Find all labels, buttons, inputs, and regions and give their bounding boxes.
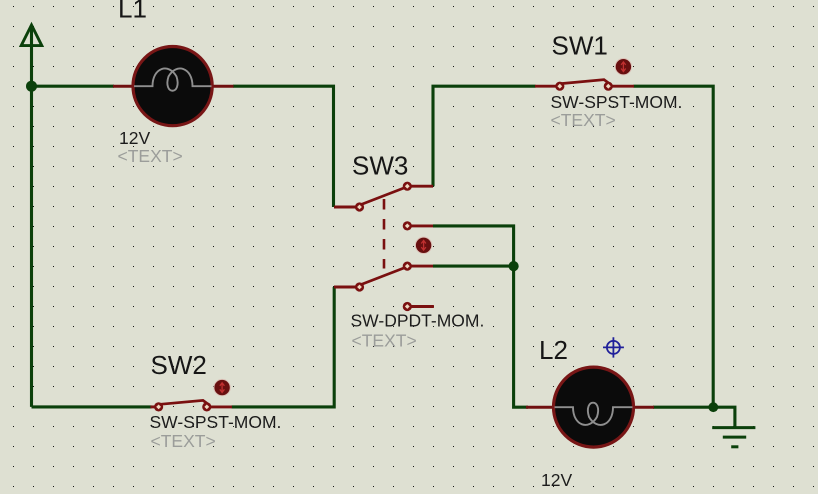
node ground junction [708,402,718,412]
wire ground stub [713,407,735,426]
label L2 designator [539,335,568,365]
node VCC junction [26,81,37,92]
label SW1 TEXT placeholder [551,110,616,130]
switch SW2 [151,400,233,411]
wire VCC vertical left (x=31.5, arrow to bottom rail) [30,25,33,407]
label SW2 TEXT placeholder [151,431,216,451]
svg-text:<TEXT>: <TEXT> [541,490,606,494]
svg-text:SW-SPST-MOM.: SW-SPST-MOM. [551,92,683,112]
svg-text:SW-DPDT-MOM.: SW-DPDT-MOM. [351,311,485,331]
switch SW3 (DPDT) [334,182,434,312]
svg-text:SW3: SW3 [352,150,408,180]
lamp L1 [113,47,234,126]
svg-text:<TEXT>: <TEXT> [118,146,183,166]
svg-text:L2: L2 [539,335,568,365]
lamp L2 [526,367,654,447]
label L2 TEXT placeholder [541,490,606,494]
label SW2 designator [151,350,207,380]
node mid junction [508,261,518,271]
wire mid junction down to L2 left pin [514,266,528,407]
SW3 actuator button [415,237,431,253]
svg-text:SW2: SW2 [151,350,207,380]
svg-text:12V: 12V [119,128,150,148]
svg-text:<TEXT>: <TEXT> [151,431,216,451]
switch SW1 [535,80,634,91]
wire from VCC node to L1 left pin [32,85,115,88]
wire SW3 pole-2 throw-1 to mid junction [433,265,514,268]
svg-text:SW1: SW1 [552,31,608,61]
label SW2 value SW-SPST-MOM [150,412,282,432]
svg-text:<TEXT>: <TEXT> [352,331,417,351]
label L1 value 12V [119,128,150,148]
label L1 TEXT placeholder [118,146,183,166]
label L2 value 12V [541,470,572,490]
label SW3 designator [352,150,408,180]
wire SW3 pole-1 throw-1 up to SW1 left pin [433,86,536,186]
svg-text:SW-SPST-MOM.: SW-SPST-MOM. [150,412,282,432]
svg-text:12V: 12V [541,470,572,490]
wire SW1 right pin to ground rail (right vertical) [634,86,714,407]
label SW3 TEXT placeholder [352,331,417,351]
SW1 actuator button [615,58,631,74]
svg-text:L1: L1 [118,0,147,23]
wire bottom rail to SW2 left pin [32,405,152,408]
power terminal arrow [21,25,42,46]
label SW3 value SW-DPDT-MOM [351,311,485,331]
L2 origin marker [603,337,624,357]
wire L1 right pin to SW3 pole-1 common [233,86,334,207]
label SW1 designator [552,31,608,61]
SW2 actuator button [214,379,230,395]
label L1 designator [118,0,147,23]
svg-text:<TEXT>: <TEXT> [551,110,616,130]
wire SW2 right pin to SW3 pole-2 common [232,287,335,407]
label SW1 value SW-SPST-MOM [551,92,683,112]
wire SW3 pole-1 throw-2 to mid junction [433,226,514,266]
wire L2 right pin to ground junction [653,406,713,409]
ground symbol [712,428,755,447]
